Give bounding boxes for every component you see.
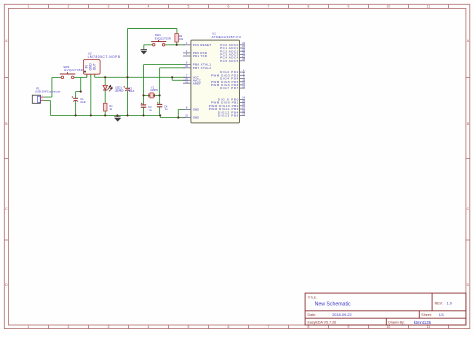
svg-text:10: 10 xyxy=(387,325,391,329)
svg-text:LED-RED: LED-RED xyxy=(115,89,124,92)
svg-text:EVQ22705R: EVQ22705R xyxy=(155,37,171,41)
svg-text:11: 11 xyxy=(427,325,431,329)
pin 5 PWM DIG3 PD3 xyxy=(240,74,246,76)
svg-text:5: 5 xyxy=(187,325,189,329)
wire P1 pin1 riser xyxy=(44,77,61,97)
svg-text:3: 3 xyxy=(107,325,109,329)
pin 15 PWM DIG9 PB1 xyxy=(240,102,246,104)
svg-text:Sheet:: Sheet: xyxy=(421,313,431,317)
pin 3 PD1 TXD xyxy=(183,55,191,57)
pin 11 PWM DIG5 PD5 xyxy=(240,81,246,83)
wire R2 bottom lead xyxy=(176,42,178,45)
svg-text:New Schematic: New Schematic xyxy=(315,301,351,307)
svg-text:8: 8 xyxy=(307,5,309,9)
connector P1 USB-DIPConnector xyxy=(32,86,60,103)
svg-text:1: 1 xyxy=(27,325,29,329)
svg-text:ATMEGA328P-PU: ATMEGA328P-PU xyxy=(212,35,241,39)
wire +5V left drop xyxy=(127,29,129,78)
svg-text:10: 10 xyxy=(387,5,391,9)
pin 22 GND xyxy=(183,117,191,119)
svg-text:AREF: AREF xyxy=(193,81,201,85)
svg-text:EasyEDA V5.7.26: EasyEDA V5.7.26 xyxy=(308,321,337,325)
wire XTAL2 net xyxy=(160,68,186,96)
pin 20 AVCC xyxy=(183,79,191,81)
svg-text:USB-DIPConnector: USB-DIPConnector xyxy=(35,90,61,94)
svg-text:2: 2 xyxy=(90,75,91,77)
svg-text:4: 4 xyxy=(147,5,149,9)
title block xyxy=(305,293,466,325)
switch SW1 EVQ22705R xyxy=(151,33,171,46)
svg-text:PC6 RESET: PC6 RESET xyxy=(193,43,212,47)
pin 4 DIG2 PD2 xyxy=(240,71,246,73)
pin 17 PWM DIG11 PB3 xyxy=(240,108,246,110)
svg-text:PD1 TXD: PD1 TXD xyxy=(193,54,208,58)
svg-text:7: 7 xyxy=(267,325,269,329)
svg-text:2: 2 xyxy=(67,5,69,9)
svg-text:2: 2 xyxy=(67,325,69,329)
wire SW1 left to ground xyxy=(144,45,153,50)
svg-text:1: 1 xyxy=(86,75,87,77)
regulator U2 LM7805CT-NOPB xyxy=(83,52,120,78)
wire U2 IN stub xyxy=(86,74,88,77)
svg-text:LM7805CT-NOPB: LM7805CT-NOPB xyxy=(88,55,120,59)
pin 21 AREF xyxy=(183,82,191,84)
wire U2 OUT stub xyxy=(94,74,96,77)
capacitor C4 1u xyxy=(157,102,159,104)
wire XTAL1 net xyxy=(144,65,186,96)
svg-text:5: 5 xyxy=(187,5,189,9)
svg-text:9: 9 xyxy=(347,5,349,9)
wire U2 GND stub down xyxy=(90,74,92,115)
svg-text:10uF: 10uF xyxy=(129,90,135,93)
junction dots xyxy=(75,44,180,119)
wire GND pin22 branch xyxy=(178,117,185,119)
svg-text:GND: GND xyxy=(193,108,200,112)
wire C3 leads xyxy=(143,95,145,115)
wire RESET net xyxy=(165,44,186,46)
pin 9 PB6 XTAL1 xyxy=(183,64,191,66)
svg-text:10k: 10k xyxy=(179,37,184,41)
svg-text:9: 9 xyxy=(347,325,349,329)
svg-text:6: 6 xyxy=(227,325,229,329)
pin 19 DIG13 PB5 xyxy=(240,114,246,116)
resistor R2 10k xyxy=(175,34,184,43)
svg-text:2018-09-22: 2018-09-22 xyxy=(332,313,351,317)
pin 23 PC0 ADC0 xyxy=(240,44,246,46)
pin 28 PC5 ADC5 xyxy=(240,60,246,62)
svg-text:10uF: 10uF xyxy=(80,101,86,104)
pin 13 DIG7 PD7 xyxy=(240,87,246,89)
pin 12 PWM DIG6 PD6 xyxy=(240,84,246,86)
svg-text:1: 1 xyxy=(27,5,29,9)
wire ground rail xyxy=(50,115,178,117)
resistor R1 1k xyxy=(104,103,114,111)
wire C2 branch xyxy=(127,77,129,115)
capacitor C2 10uF xyxy=(123,86,134,93)
svg-text:DIG13 PB5: DIG13 PB5 xyxy=(218,114,239,118)
svg-text:PB7 XTAL2: PB7 XTAL2 xyxy=(193,66,212,70)
svg-text:3: 3 xyxy=(107,5,109,9)
svg-text:1/1: 1/1 xyxy=(439,313,444,317)
pin 6 DIG4 PD4 xyxy=(240,78,246,80)
svg-text:1.0: 1.0 xyxy=(447,302,452,306)
svg-text:7: 7 xyxy=(267,5,269,9)
wire C1 jog xyxy=(76,77,81,91)
ground (SW1) xyxy=(140,50,147,55)
svg-text:TITLE:: TITLE: xyxy=(308,295,317,299)
svg-text:4: 4 xyxy=(147,325,149,329)
svg-text:PC5 ADC5: PC5 ADC5 xyxy=(220,59,239,63)
wire C4 leads xyxy=(159,95,161,115)
svg-text:GND: GND xyxy=(193,116,200,120)
svg-text:8: 8 xyxy=(307,325,309,329)
crystal Y1 16MHz xyxy=(149,85,159,98)
svg-text:Date:: Date: xyxy=(308,313,317,317)
switch SW2 EVQ22705R xyxy=(60,65,83,79)
wire R2 top lead xyxy=(176,29,178,34)
ground (rail) xyxy=(114,117,121,122)
pin 25 PC2 ADC2 xyxy=(240,50,246,52)
wire +5V rail xyxy=(95,76,186,78)
svg-text:OUT: OUT xyxy=(93,63,97,70)
svg-text:6: 6 xyxy=(227,5,229,9)
pin 10 PB7 XTAL2 xyxy=(183,67,191,69)
wire P1 pin2 to ground rail xyxy=(44,100,50,115)
pin 18 DIG12 PB4 xyxy=(240,111,246,113)
svg-text:11: 11 xyxy=(427,5,431,9)
pin 1 PC6 RESET xyxy=(183,44,191,46)
svg-text:EVQ22705R: EVQ22705R xyxy=(64,68,82,72)
wire SW2 to U2 IN xyxy=(74,76,87,78)
pin 24 PC1 ADC1 xyxy=(240,47,246,49)
wire crystal link xyxy=(144,94,160,96)
pin 26 PC3 ADC3 xyxy=(240,53,246,55)
LED LED1 xyxy=(103,85,124,92)
wire LED branch xyxy=(104,77,106,115)
pin 16 PWM DIG10 PB2 xyxy=(240,105,246,107)
capacitor C1 10uF xyxy=(72,96,87,104)
svg-text:DIG7 PD7: DIG7 PD7 xyxy=(220,86,239,90)
pin 7 VCC xyxy=(183,76,191,78)
MCU U1 ATMEGA328P-PU xyxy=(183,32,246,123)
svg-text:ktmnt135: ktmnt135 xyxy=(414,320,432,325)
svg-text:REV:: REV: xyxy=(435,302,443,306)
pin 2 PD0 RXD xyxy=(183,52,191,54)
wire AVCC branch xyxy=(172,77,185,80)
capacitor C3 1u xyxy=(141,103,143,105)
wire GND pin8 branch xyxy=(178,109,185,117)
pin 14 DIG 8 PB0 xyxy=(240,98,246,100)
wire +5V top rail xyxy=(128,28,177,30)
wire C1 leads xyxy=(75,92,77,116)
svg-text:3: 3 xyxy=(94,75,95,77)
svg-text:Drawn By:: Drawn By: xyxy=(388,321,405,325)
pin 8 GND xyxy=(183,108,191,110)
svg-text:16MHz: 16MHz xyxy=(150,89,159,92)
pin 27 PC4 ADC4 xyxy=(240,57,246,59)
